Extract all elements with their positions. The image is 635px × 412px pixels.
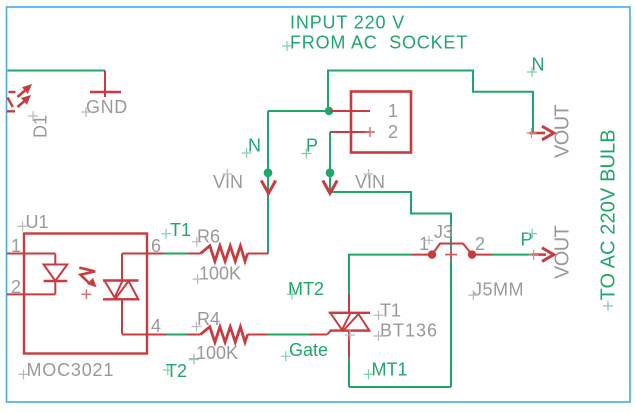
wire gate [268,334,310,336]
svg-text:J3: J3 [434,222,453,242]
svg-text:100K: 100K [199,264,241,284]
wire P out [492,254,532,256]
node P label right [521,229,538,250]
connector X1 [330,92,411,153]
wire T1 [164,253,188,255]
wire MT2 loop [349,255,412,294]
svg-text:VOUT: VOUT [552,225,574,279]
svg-text:4: 4 [151,316,161,336]
svg-text:T1: T1 [170,220,191,240]
photo-triac inside U1 [103,254,139,335]
node T1 label [161,220,191,240]
svg-text:BT136: BT136 [380,321,438,341]
diode D1 (clipped LED at left border) [7,84,51,138]
wire MT1 loop [349,357,451,387]
svg-text:2: 2 [388,122,398,142]
triac T1 [309,294,438,357]
jumper J3 [412,222,524,300]
op U1 optocoupler body [18,212,148,380]
node Gate label [281,340,328,361]
resistor R6 [188,227,269,285]
svg-text:1: 1 [419,234,429,254]
LED inside U1 [44,254,68,295]
svg-text:VOUT: VOUT [552,104,574,158]
pin 2 U1 [7,277,55,297]
pin 1 U1 [7,236,55,256]
wire N to junction [268,110,329,112]
svg-text:6: 6 [151,236,161,256]
node MT2 label [287,279,324,299]
junction N supply [264,168,273,177]
node N top wiring [328,71,533,134]
svg-text:Gate: Gate [289,340,328,360]
svg-text:1: 1 [388,101,398,121]
supply arrow N (VIN) [213,169,276,193]
svg-text:INPUT 220 V: INPUT 220 V [290,13,405,33]
svg-text:MOC3021: MOC3021 [27,360,115,380]
node P label [301,136,318,159]
svg-text:J5MM: J5MM [473,280,524,300]
pin 6 U1 [122,236,164,256]
node T2 label [163,354,199,381]
svg-text:P: P [306,136,318,156]
svg-text:2: 2 [475,234,485,254]
svg-text:R6: R6 [197,227,220,247]
svg-text:TO AC 220V BULB: TO AC 220V BULB [598,129,620,300]
svg-text:P: P [521,230,533,250]
svg-text:FROM AC SOCKET: FROM AC SOCKET [290,33,468,53]
light arrow inside U1 [79,268,96,300]
title text INPUT 220V [282,13,468,53]
svg-text:100K: 100K [196,343,238,363]
node N label (top) [527,55,545,78]
svg-text:MT2: MT2 [288,279,324,299]
wire P down [330,132,451,387]
supply arrow P (VIN) [323,169,385,193]
svg-text:T1: T1 [380,301,401,321]
svg-text:MT1: MT1 [372,360,408,380]
node MT1 label [364,360,408,380]
svg-text:VIN: VIN [213,172,243,192]
VOUT arrow lower [529,225,574,279]
svg-text:2: 2 [11,277,21,297]
junction [325,107,333,115]
wire [8,70,106,72]
resistor R4 [188,309,268,365]
svg-text:GND: GND [86,97,128,117]
svg-text:VIN: VIN [355,172,385,192]
junction P supply [326,168,335,177]
VOUT arrow upper [527,104,574,158]
svg-text:T2: T2 [166,361,187,381]
ground [81,71,128,118]
wire N down [267,111,269,254]
note TO AC 220V BULB [598,129,620,311]
wire T2 [166,334,188,336]
svg-text:U1: U1 [26,212,49,232]
node N label [242,136,261,159]
svg-text:1: 1 [11,236,21,256]
pin 4 U1 [122,316,166,336]
